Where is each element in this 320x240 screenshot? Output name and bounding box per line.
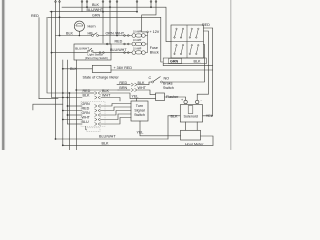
wire	[203, 28, 213, 116]
svg-text:+: +	[181, 98, 183, 102]
svg-text:Hour Meter: Hour Meter	[185, 143, 204, 147]
svg-text:GRN: GRN	[170, 59, 179, 63]
wire horizontal y=41.6	[171, 41, 204, 43]
svg-text:BLU: BLU	[82, 120, 90, 124]
wire +36V RED	[111, 69, 213, 71]
hour meter right	[201, 136, 214, 145]
wire vertical x=187	[186, 25, 188, 58]
top connector stubs	[55, 0, 57, 139]
dashed rows right exits	[101, 104, 132, 107]
junction dots	[86, 6, 88, 8]
mini connector box	[87, 128, 100, 132]
wire vertical x=103	[102, 0, 104, 43]
wire	[138, 90, 156, 95]
wire horizontal y=119.5	[63, 119, 82, 121]
svg-text:Flasher: Flasher	[166, 95, 179, 99]
fuse F2	[132, 42, 136, 46]
wire YEL flasher	[137, 97, 156, 99]
brake switch BS	[152, 81, 154, 83]
wire horizontal y=35.5	[99, 35, 132, 37]
flasher box FL	[156, 93, 165, 101]
wire	[197, 31, 208, 100]
svg-text:BLK: BLK	[92, 3, 100, 7]
svg-text:BLK: BLK	[194, 60, 202, 64]
wire	[101, 118, 132, 125]
row R2 BRN-WHT to flasher	[118, 89, 130, 91]
vertical x63.5	[62, 60, 64, 145]
wire meter BLK	[63, 68, 93, 70]
svg-text:YEL: YEL	[132, 94, 139, 98]
svg-text:Fuse: Fuse	[150, 46, 158, 50]
wire horizontal y=90	[76, 89, 118, 91]
bottom BLK bus	[63, 144, 213, 146]
svg-text:WHT: WHT	[138, 86, 147, 90]
wire	[47, 17, 82, 93]
wire vertical x=137	[136, 0, 138, 12]
svg-text:BLK: BLK	[171, 114, 179, 118]
wire horizontal y=26	[76, 25, 83, 27]
svg-text:BLU/WHT: BLU/WHT	[87, 8, 104, 12]
wire vertical x=168	[167, 116, 169, 139]
svg-text:BLU/WHT: BLU/WHT	[75, 46, 89, 50]
wire	[89, 48, 92, 51]
junction dots	[51, 6, 152, 146]
svg-text:State of Charge Meter: State of Charge Meter	[83, 76, 120, 80]
svg-text:(Part of Key Switch): (Part of Key Switch)	[85, 56, 108, 60]
svg-text:BLK: BLK	[102, 141, 110, 145]
wire	[138, 82, 152, 85]
wire horizontal y=124	[68, 123, 83, 125]
wire	[101, 107, 132, 111]
wire BLU/WHT light row	[52, 52, 88, 54]
svg-text:RED: RED	[115, 40, 123, 44]
wire	[93, 33, 97, 35]
wire	[33, 104, 63, 110]
svg-text:Signal: Signal	[134, 108, 144, 112]
wire horn row BLK	[56, 35, 92, 37]
svg-text:BLU/WHT: BLU/WHT	[110, 48, 127, 52]
svg-text:10 AMP: 10 AMP	[133, 39, 142, 42]
wire vertical x=197.2	[196, 122, 198, 130]
fuse F1	[132, 31, 149, 54]
wire vertical x=59.5	[59, 0, 61, 36]
svg-text:RED: RED	[83, 89, 91, 93]
wire BLU/WHT bus	[50, 11, 137, 13]
svg-text:Solenoid: Solenoid	[184, 114, 198, 118]
solenoid SOL	[180, 105, 202, 122]
svg-text:WHT: WHT	[82, 116, 91, 120]
wire BLK bus	[62, 7, 171, 41]
wire	[153, 77, 160, 82]
top edge connector marks	[55, 1, 157, 3]
svg-text:BLK: BLK	[83, 94, 91, 98]
svg-text:WHT: WHT	[102, 94, 111, 98]
svg-text:Block: Block	[150, 51, 159, 55]
svg-text:ORN /WHT: ORN /WHT	[106, 31, 125, 35]
svg-text:HB: HB	[88, 32, 94, 36]
wire horizontal y=110.5	[63, 110, 82, 112]
wire	[145, 36, 147, 45]
left scan edge bar	[1, 0, 3, 150]
wire left drop to rows	[38, 18, 40, 99]
svg-text:BRN: BRN	[119, 86, 127, 90]
svg-text:BLU/WHT: BLU/WHT	[99, 134, 116, 138]
mini box feed wire	[86, 126, 87, 130]
row R1 RED-BLK to brake C	[117, 84, 130, 86]
dashed rows left feeds	[68, 105, 83, 107]
solenoid to hour meter	[185, 122, 187, 130]
wire	[101, 114, 132, 120]
svg-text:BLK: BLK	[102, 89, 110, 93]
wire	[101, 111, 132, 116]
wire stub 156 down-left-down to fuse feed	[142, 0, 156, 32]
svg-text:YEL: YEL	[206, 114, 213, 118]
wire vertical x=151	[150, 0, 152, 7]
svg-text:+ 12V: + 12V	[150, 30, 160, 34]
key switch contacts	[176, 28, 177, 29]
wire vertical x=87	[86, 0, 88, 7]
wire vertical x=117	[116, 0, 118, 36]
horn drop	[78, 31, 80, 35]
wire GRN bus	[48, 17, 163, 62]
inline connectors	[106, 35, 129, 54]
vertical x67.5	[67, 60, 69, 124]
light switch box LS	[74, 44, 111, 60]
svg-text:Brake: Brake	[163, 81, 173, 85]
turn signal switch box TS	[131, 101, 148, 121]
svg-text:RED: RED	[82, 107, 90, 111]
svg-text:BLK: BLK	[138, 81, 146, 85]
hour meter box HM	[181, 130, 201, 140]
wire solenoid left BLK	[168, 115, 180, 117]
wire TS down YEL	[140, 121, 181, 136]
key switch box KS	[171, 25, 204, 58]
horn H1	[74, 21, 84, 31]
svg-text:RED: RED	[119, 81, 127, 85]
right scan edge line	[230, 0, 231, 150]
svg-text:BLK: BLK	[70, 67, 78, 71]
wire	[163, 64, 213, 66]
svg-text:RED: RED	[31, 14, 39, 18]
connector arrows	[95, 83, 138, 126]
fuse F3	[132, 51, 136, 55]
horn button switch	[92, 35, 94, 37]
wire key right to brake	[163, 45, 205, 83]
row R3	[82, 92, 94, 94]
wire	[101, 93, 137, 101]
wire key loop lower	[163, 58, 206, 64]
connector dashed box	[81, 102, 105, 127]
wire	[145, 44, 147, 53]
svg-text:Switch: Switch	[163, 86, 174, 90]
wire horizontal y=52.6	[93, 52, 132, 54]
wire lightbox drop	[75, 60, 77, 150]
svg-text:Horn: Horn	[88, 24, 96, 28]
svg-text:BLK: BLK	[66, 31, 74, 35]
bottom BLU/WHT bus	[56, 138, 169, 140]
svg-text:GRN: GRN	[82, 102, 91, 106]
svg-text:Turn: Turn	[136, 104, 143, 108]
wire RED fuse row	[107, 43, 132, 45]
svg-text:Switch: Switch	[134, 113, 145, 117]
wire horizontal y=115	[68, 114, 83, 116]
wire vertical x=82	[81, 0, 83, 12]
svg-text:10 AMP: 10 AMP	[133, 30, 142, 33]
svg-text:NO: NO	[164, 76, 170, 80]
svg-text:10 AMP: 10 AMP	[133, 47, 142, 50]
wire vertical x=69.4	[68, 93, 70, 150]
wire vertical x=110	[109, 0, 111, 44]
svg-text:GRN: GRN	[92, 13, 101, 17]
row R4	[101, 98, 120, 102]
wire and component text labels	[31, 3, 213, 147]
svg-text:YEL: YEL	[137, 130, 144, 134]
svg-text:RED: RED	[202, 23, 210, 27]
wire	[52, 12, 83, 98]
bottom-left staircase	[39, 98, 58, 100]
svg-text:+ 36V RED: + 36V RED	[114, 66, 133, 70]
svg-text:C: C	[149, 76, 152, 80]
fuse block bus	[145, 32, 147, 36]
svg-text:GRN: GRN	[82, 111, 91, 115]
state of charge meter box M1	[92, 65, 111, 72]
flasher right	[165, 97, 186, 100]
